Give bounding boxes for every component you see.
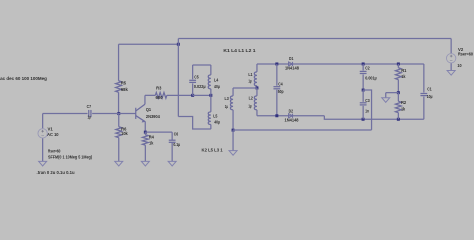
wire Q1 collector riser — [144, 95, 146, 104]
inductor L2 — [256, 88, 258, 96]
wire L3 to ground — [232, 130, 234, 151]
ground below C6 — [168, 161, 176, 166]
svg-text:10µ: 10µ — [427, 94, 433, 99]
wire center tap to L3 — [233, 87, 257, 89]
wire V2 drop from rail — [450, 39, 452, 54]
svg-text:10: 10 — [457, 63, 461, 69]
wire tank bottom — [193, 94, 211, 96]
svg-text:V1: V1 — [48, 127, 53, 133]
svg-text:R3: R3 — [156, 86, 161, 92]
capacitor C6 — [171, 132, 173, 140]
diode D2 — [289, 114, 293, 118]
svg-text:C1: C1 — [427, 87, 432, 93]
node supply junction — [177, 43, 180, 46]
node C2-C3 junction — [362, 89, 365, 92]
svg-text:L1: L1 — [248, 72, 252, 78]
voltage source V2 — [446, 54, 455, 63]
svg-text:SFFM(0 1 10Meg 5 1Meg): SFFM(0 1 10Meg 5 1Meg) — [48, 155, 92, 161]
svg-text:R4: R4 — [149, 135, 154, 141]
voltage source V1 — [38, 129, 47, 138]
svg-text:AC 10: AC 10 — [47, 132, 59, 138]
svg-text:R1: R1 — [401, 68, 406, 74]
node C3 bottom — [362, 118, 365, 121]
wire emitter to C6 — [145, 131, 172, 133]
svg-text:C7: C7 — [87, 104, 92, 110]
svg-text:1µ: 1µ — [225, 104, 228, 110]
svg-text:68k: 68k — [121, 87, 128, 93]
wire staircase to L5 bottom — [178, 117, 211, 130]
transistor Q1 — [135, 108, 137, 119]
wire secondary top rail — [257, 63, 424, 65]
node L4-L5 junction — [209, 94, 212, 97]
svg-text:C4: C4 — [278, 81, 283, 87]
svg-text:Rser=60: Rser=60 — [458, 52, 473, 58]
capacitor C5 — [192, 65, 194, 79]
node R1-R2 junction — [397, 91, 400, 94]
wire R6 bottom lead — [118, 138, 120, 162]
wire R4 bottom lead — [144, 145, 146, 161]
wire C7 to Q1 base — [92, 113, 136, 115]
ground at R1-R2 midpoint — [382, 98, 390, 103]
svg-text:1n: 1n — [365, 108, 369, 114]
svg-text:C3: C3 — [365, 98, 370, 104]
svg-text:50p: 50p — [278, 89, 284, 94]
svg-text:1µ: 1µ — [88, 115, 91, 121]
capacitor C2 — [362, 62, 365, 65]
wire audio tap jog — [363, 90, 371, 130]
wire Q1 emitter drop — [144, 122, 146, 133]
wire return to center tap ground — [233, 129, 372, 131]
svg-text:C6: C6 — [174, 132, 179, 138]
svg-text:1µ: 1µ — [248, 79, 251, 85]
wire midpoint to ground — [386, 92, 399, 94]
capacitor C7 — [88, 110, 90, 117]
ground below L3 — [229, 151, 237, 156]
node base bias junction — [117, 112, 120, 115]
wire R6 top lead — [118, 114, 120, 127]
svg-text:0.1µ: 0.1µ — [173, 142, 180, 147]
node C5 bottom — [191, 94, 194, 97]
wire x=178 vertical feed — [177, 39, 179, 117]
svg-text:40µ: 40µ — [214, 84, 220, 89]
svg-text:C5: C5 — [194, 75, 199, 81]
svg-text:D1: D1 — [289, 56, 294, 62]
ground below V1 — [39, 161, 47, 166]
wire V1 bottom lead — [42, 138, 44, 161]
resistor R4 — [144, 132, 146, 135]
svg-text:600: 600 — [156, 95, 163, 100]
svg-text:0.022µ: 0.022µ — [194, 84, 206, 89]
resistor R1 — [397, 62, 400, 65]
svg-text:1k: 1k — [401, 74, 405, 80]
svg-text:R5: R5 — [121, 81, 126, 87]
inductor L3 — [232, 88, 234, 96]
wire V1 top lead — [42, 114, 44, 129]
node center tap — [255, 86, 258, 89]
ground below R4 — [141, 161, 149, 166]
svg-text:40µ: 40µ — [214, 120, 220, 125]
wire R5 top lead — [118, 44, 120, 81]
inductor L4 — [210, 65, 212, 75]
svg-text:1k: 1k — [149, 141, 153, 147]
svg-text:1N4148: 1N4148 — [285, 66, 299, 71]
svg-text:.ac dec 60 100 100Meg: .ac dec 60 100 100Meg — [0, 76, 47, 82]
wire V1 to C7 — [43, 113, 88, 115]
svg-text:10k: 10k — [121, 131, 128, 137]
wire top supply rail from node at x=178 to V2 — [178, 38, 451, 40]
capacitor C1 — [423, 64, 425, 93]
svg-text:0.001µ: 0.001µ — [365, 75, 377, 80]
wire secondary bottom rail — [257, 115, 324, 117]
node L3 bottom — [232, 129, 235, 132]
wire V2 to ground — [450, 63, 452, 70]
svg-text:.tran 0 2u 0.1u 0.1u: .tran 0 2u 0.1u 0.1u — [37, 170, 75, 176]
resistor R3 — [155, 92, 167, 98]
svg-text:K2 L5 L3 1: K2 L5 L3 1 — [202, 148, 223, 154]
svg-text:R2: R2 — [401, 100, 406, 106]
svg-text:L4: L4 — [214, 78, 218, 84]
inductor L1 — [256, 64, 258, 72]
node R2 bottom — [397, 118, 400, 121]
wire tank top — [193, 64, 211, 66]
node emitter junction — [144, 131, 147, 134]
svg-text:Q1: Q1 — [146, 107, 151, 113]
ground below V2 — [447, 71, 455, 76]
ground below R6 — [115, 161, 123, 166]
resistor R5 — [116, 81, 122, 93]
svg-text:1N4148: 1N4148 — [285, 118, 299, 123]
wire bias branch to R5 — [119, 43, 179, 45]
wire D2 jog down — [324, 116, 424, 120]
svg-text:L3: L3 — [225, 96, 229, 102]
resistor R2 — [397, 93, 399, 102]
svg-text:K1 L4 L1 L2 1: K1 L4 L1 L2 1 — [223, 48, 255, 54]
wire R5 bottom lead — [118, 92, 120, 113]
capacitor C4 — [275, 62, 278, 65]
wire R3 to tank — [167, 94, 193, 96]
diode D1 — [289, 62, 293, 66]
svg-text:2N3904: 2N3904 — [146, 114, 160, 120]
resistor R6 — [116, 127, 122, 138]
inductor L5 — [210, 95, 212, 112]
svg-text:D2: D2 — [289, 109, 294, 115]
svg-text:1k: 1k — [401, 107, 405, 113]
svg-text:Rser=60: Rser=60 — [48, 149, 61, 155]
wire C6 bottom lead — [171, 142, 173, 161]
capacitor C3 — [362, 90, 364, 102]
wire collector to R3 — [145, 94, 155, 96]
svg-text:C2: C2 — [365, 66, 370, 72]
svg-text:1µ: 1µ — [248, 104, 251, 110]
svg-text:L2: L2 — [249, 96, 253, 102]
